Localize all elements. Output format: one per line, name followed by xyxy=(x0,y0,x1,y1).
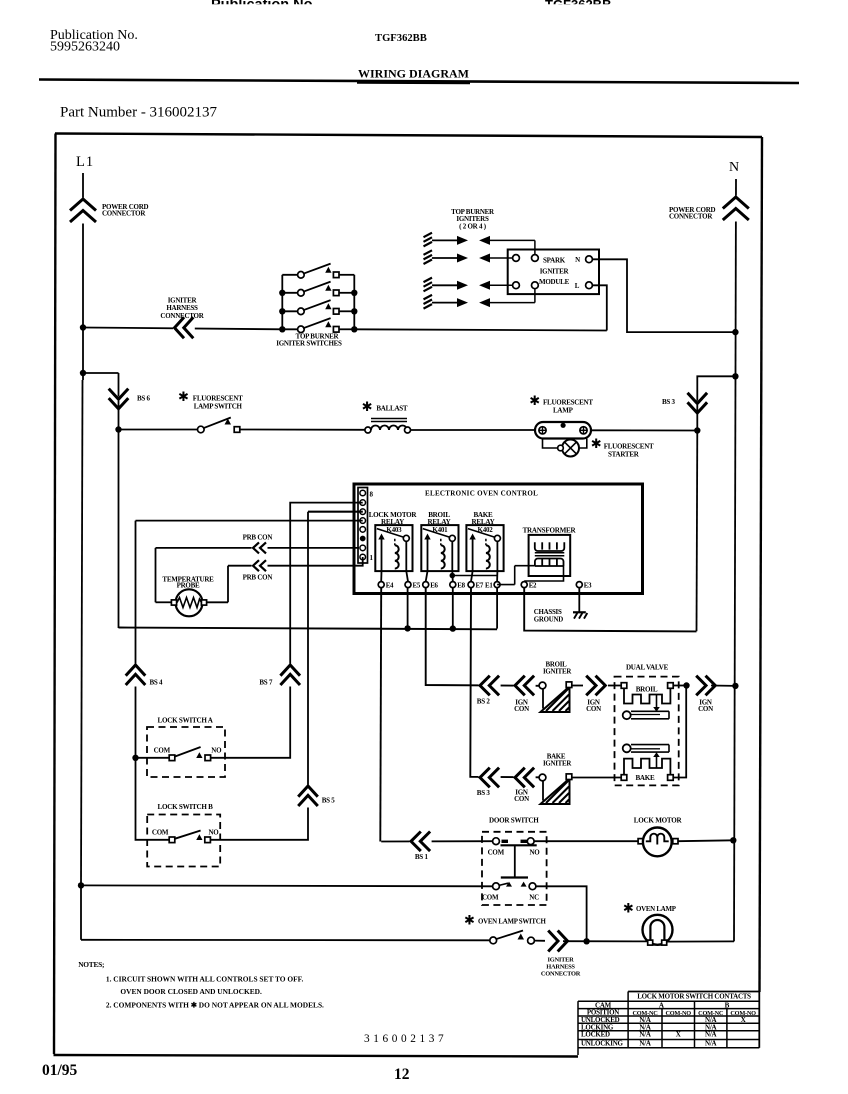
svg-text:LOCK MOTOR SWITCH CONTACTS: LOCK MOTOR SWITCH CONTACTS xyxy=(637,993,751,1001)
svg-text:✱: ✱ xyxy=(178,389,189,404)
svg-text:DUAL VALVE: DUAL VALVE xyxy=(626,664,669,672)
svg-text:BS 2: BS 2 xyxy=(477,698,491,706)
svg-text:MODULE: MODULE xyxy=(539,278,570,286)
svg-text:N/A: N/A xyxy=(639,1031,651,1039)
svg-text:BS 3: BS 3 xyxy=(477,789,491,797)
svg-text:GROUND: GROUND xyxy=(534,617,563,624)
svg-text:SPARK: SPARK xyxy=(543,257,566,265)
svg-text:CONNECTOR: CONNECTOR xyxy=(669,213,713,221)
svg-text:CONNECTOR: CONNECTOR xyxy=(160,312,204,320)
svg-text:CON: CON xyxy=(514,795,529,803)
svg-text:CON: CON xyxy=(586,705,601,713)
svg-text:NO: NO xyxy=(209,829,220,837)
svg-text:2. COMPONENTS WITH ✱ DO NOT A: 2. COMPONENTS WITH ✱ DO NOT APPEAR ON AL… xyxy=(106,1001,324,1010)
svg-text:N/A: N/A xyxy=(639,1040,651,1048)
svg-text:316002137: 316002137 xyxy=(364,1033,447,1045)
svg-text:01/95: 01/95 xyxy=(42,1062,78,1079)
svg-text:CONNECTOR: CONNECTOR xyxy=(102,210,146,218)
svg-text:IGNITER: IGNITER xyxy=(543,669,572,676)
svg-text:E3: E3 xyxy=(584,583,592,590)
svg-text:E8: E8 xyxy=(457,583,465,590)
svg-text:FLUORESCENT: FLUORESCENT xyxy=(543,399,593,407)
svg-text:✱: ✱ xyxy=(529,393,540,408)
svg-text:FLUORESCENT: FLUORESCENT xyxy=(604,443,654,451)
svg-text:N/A: N/A xyxy=(705,1040,717,1048)
svg-text:BS 3: BS 3 xyxy=(662,398,676,406)
svg-text:✱: ✱ xyxy=(362,399,373,414)
svg-text:CONNECTOR: CONNECTOR xyxy=(541,970,581,977)
svg-text:ELECTRONIC OVEN CONTROL: ELECTRONIC OVEN CONTROL xyxy=(425,490,538,498)
svg-text:LAMP: LAMP xyxy=(553,407,574,415)
svg-text:COM: COM xyxy=(488,849,505,857)
svg-text:DOOR SWITCH: DOOR SWITCH xyxy=(489,817,539,825)
svg-text:✱: ✱ xyxy=(464,913,475,928)
svg-text:NOTES;: NOTES; xyxy=(78,960,104,969)
svg-text:✱: ✱ xyxy=(623,901,634,916)
svg-text:LOCKED: LOCKED xyxy=(581,1031,610,1039)
svg-text:NC: NC xyxy=(529,894,539,902)
svg-text:HARNESS: HARNESS xyxy=(166,304,198,312)
svg-text:CON: CON xyxy=(514,705,529,713)
svg-text:COM: COM xyxy=(154,747,171,755)
svg-text:BS 7: BS 7 xyxy=(259,679,273,687)
svg-text:BS 4: BS 4 xyxy=(150,679,164,687)
svg-text:IGNITER SWITCHES: IGNITER SWITCHES xyxy=(276,340,342,348)
svg-text:LAMP SWITCH: LAMP SWITCH xyxy=(194,403,243,411)
svg-text:Part Number - 316002137: Part Number - 316002137 xyxy=(60,105,218,121)
svg-text:BS 5: BS 5 xyxy=(322,797,336,805)
svg-text:PROBE: PROBE xyxy=(177,582,200,590)
svg-text:FLUORESCENT: FLUORESCENT xyxy=(193,395,243,403)
svg-text:COM: COM xyxy=(482,894,499,902)
svg-text:B: B xyxy=(725,1002,730,1010)
svg-text:NO: NO xyxy=(530,849,541,857)
svg-text:CON: CON xyxy=(698,705,713,713)
svg-text:E4: E4 xyxy=(386,583,394,590)
svg-text:N: N xyxy=(575,256,580,264)
svg-text:BROIL: BROIL xyxy=(546,662,568,669)
svg-text:N: N xyxy=(729,160,739,175)
svg-text:NO: NO xyxy=(211,747,222,755)
svg-text:X: X xyxy=(741,1016,746,1024)
svg-text:BS 6: BS 6 xyxy=(137,395,151,403)
svg-text:( 2 OR 4 ): ( 2 OR 4 ) xyxy=(459,223,487,231)
svg-text:1. CIRCUIT SHOWN WITH ALL CON: 1. CIRCUIT SHOWN WITH ALL CONTROLS SET T… xyxy=(106,975,304,984)
svg-text:BROIL: BROIL xyxy=(636,686,658,694)
svg-text:BALLAST: BALLAST xyxy=(376,405,408,413)
svg-text:BAKE: BAKE xyxy=(635,774,655,782)
svg-text:TRANSFORMER: TRANSFORMER xyxy=(523,527,577,535)
svg-text:E6: E6 xyxy=(430,583,438,590)
svg-text:L: L xyxy=(575,282,580,290)
svg-text:E7: E7 xyxy=(476,583,484,590)
svg-text:X: X xyxy=(676,1031,681,1039)
svg-text:IGNITER: IGNITER xyxy=(540,268,570,276)
svg-text:E1: E1 xyxy=(485,583,493,590)
svg-text:COM: COM xyxy=(152,829,169,837)
svg-text:STARTER: STARTER xyxy=(608,451,640,459)
svg-text:COM-NO: COM-NO xyxy=(665,1010,691,1017)
svg-text:OVEN LAMP SWITCH: OVEN LAMP SWITCH xyxy=(478,919,546,926)
svg-text:WIRING DIAGRAM: WIRING DIAGRAM xyxy=(358,67,469,81)
svg-text:HARNESS: HARNESS xyxy=(546,963,575,970)
svg-text:PRB CON: PRB CON xyxy=(243,574,273,582)
svg-text:LOCK SWITCH A: LOCK SWITCH A xyxy=(158,717,214,725)
svg-text:IGNITER: IGNITER xyxy=(543,761,572,768)
svg-text:E5: E5 xyxy=(413,583,421,590)
svg-text:12: 12 xyxy=(394,1066,410,1083)
svg-text:LOCK SWITCH B: LOCK SWITCH B xyxy=(158,803,214,811)
svg-text:LOCK MOTOR: LOCK MOTOR xyxy=(634,817,683,825)
svg-text:L1: L1 xyxy=(76,154,94,170)
svg-text:BAKE: BAKE xyxy=(547,754,566,761)
svg-text:TGF362BB: TGF362BB xyxy=(375,33,427,44)
svg-text:N/A: N/A xyxy=(705,1031,717,1039)
svg-text:OVEN DOOR CLOSED AND UNLOCKED.: OVEN DOOR CLOSED AND UNLOCKED. xyxy=(120,987,262,996)
svg-text:OVEN LAMP: OVEN LAMP xyxy=(636,906,677,913)
svg-text:E2: E2 xyxy=(529,583,537,590)
svg-text:UNLOCKING: UNLOCKING xyxy=(581,1040,624,1048)
svg-text:5995263240: 5995263240 xyxy=(50,40,120,55)
svg-text:PRB CON: PRB CON xyxy=(243,534,273,542)
svg-text:BS 1: BS 1 xyxy=(415,853,429,861)
svg-text:CHASSIS: CHASSIS xyxy=(534,609,562,616)
svg-text:✱: ✱ xyxy=(591,436,602,451)
